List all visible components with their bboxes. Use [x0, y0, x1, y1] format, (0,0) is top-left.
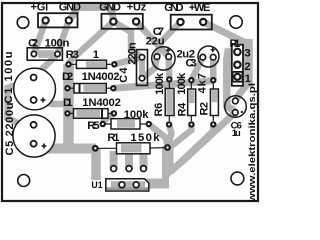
svg-text:GND: GND — [59, 1, 81, 13]
wire C7 minus to C4 bottom — [142, 57, 157, 79]
wire C1 bottom to rail — [34, 100, 68, 104]
wire B GND to R3 left — [69, 22, 114, 65]
resistor R6 — [165, 76, 174, 127]
svg-text:1: 1 — [93, 49, 99, 61]
diode D2 1N4002 — [64, 84, 116, 94]
resistor R4 — [188, 77, 196, 128]
wire C4 top to R3 right — [114, 57, 142, 64]
svg-text:C2: C2 — [28, 37, 38, 49]
connector block C — [171, 15, 212, 30]
wire C3 plus to R2 top — [210, 57, 217, 80]
svg-text:100n: 100n — [45, 37, 70, 49]
wire C3 minus to R4 top — [191, 57, 203, 80]
hole bottom-left — [18, 175, 30, 187]
svg-text:+Uz: +Uz — [127, 2, 147, 14]
wire U1 pin band 1 — [110, 151, 118, 169]
wire C6 bottom to U1 right — [170, 113, 235, 173]
svg-text:D1: D1 — [63, 97, 73, 109]
wire R6 bottom to R1 right — [168, 124, 172, 147]
svg-text:U1: U1 — [91, 180, 102, 190]
wire U1 pin band 2 — [125, 151, 133, 169]
resistor R2 — [210, 77, 218, 128]
svg-text:+Gl: +Gl — [31, 1, 49, 13]
wire B GND to C4 top — [113, 22, 142, 58]
resistor R1 — [92, 143, 171, 154]
capacitor C1 100u — [14, 68, 56, 110]
wire D2 right to R4 top — [113, 80, 213, 88]
connector block A — [38, 13, 78, 27]
capacitor C7 22u — [152, 47, 175, 70]
capacitor C4 220n — [137, 50, 148, 86]
connector P1 — [232, 45, 243, 86]
wire P1 pin2 stub — [226, 62, 237, 68]
IC U1 — [106, 166, 149, 191]
svg-text:100k: 100k — [124, 109, 149, 121]
wire +Uz to C7 plus — [136, 22, 169, 57]
wire P1 pins to C6 bottom — [227, 52, 238, 113]
svg-text:R3: R3 — [66, 49, 79, 61]
svg-text:GND: GND — [99, 2, 121, 14]
svg-text:4k7: 4k7 — [196, 73, 208, 93]
wire A GND to C2 right — [58, 20, 69, 54]
wire C1 top to C5 top via left edge — [8, 78, 34, 125]
svg-text:1N4002: 1N4002 — [82, 71, 120, 83]
wire C2 right to C1 top — [34, 54, 58, 78]
svg-text:C5 2200u: C5 2200u — [4, 103, 16, 156]
capacitor C5 2200u — [13, 115, 55, 157]
svg-text:P1: P1 — [230, 38, 241, 50]
wire GND top link A-B — [69, 8, 114, 22]
wire R1 right to U1 right — [162, 146, 174, 184]
hole top-right — [230, 16, 242, 28]
capacitor C6 1u — [225, 96, 247, 118]
svg-text:100k: 100k — [176, 72, 188, 95]
labels — [31, 1, 211, 14]
wire R1 left down to U1 — [91, 149, 101, 181]
wire R2 bottom diagonal to U1 — [178, 124, 213, 164]
svg-text:R4: R4 — [177, 102, 189, 117]
wire C5 plus band to R1 left — [34, 144, 96, 154]
resistor R5 — [100, 119, 152, 129]
connector block B — [102, 14, 143, 29]
hole top-left — [17, 17, 29, 29]
wire +WE to right edge down to P1 pin1 and C6 top — [203, 22, 244, 42]
wire R4 bottom to R1 right junction — [171, 124, 191, 146]
svg-text:R5: R5 — [87, 120, 99, 132]
svg-text:R6: R6 — [153, 103, 165, 117]
wire U1 pin band 3 — [140, 151, 148, 169]
capacitor C2 — [27, 48, 62, 60]
wire R5 right to R1 right junction — [149, 124, 168, 148]
svg-text:www.elektronika.qs.pl: www.elektronika.qs.pl — [247, 83, 257, 203]
svg-text:C3: C3 — [186, 58, 197, 70]
svg-text:R2: R2 — [199, 102, 211, 116]
svg-text:150k: 150k — [130, 132, 160, 144]
svg-text:R1: R1 — [107, 132, 119, 144]
svg-text:220n: 220n — [126, 42, 138, 65]
svg-text:2: 2 — [244, 61, 250, 73]
svg-text:1u: 1u — [232, 128, 241, 139]
diode D1 1N4002 — [64, 109, 117, 119]
svg-text:+WE: +WE — [189, 2, 210, 14]
wire +Gl to C2 left — [34, 20, 46, 54]
wire vertical rail R3-D2-D1 left — [63, 64, 74, 148]
wire C7 plus to R6 top — [165, 57, 172, 80]
svg-text:3: 3 — [244, 48, 250, 60]
hole bottom-right — [231, 172, 244, 185]
svg-text:1N4002: 1N4002 — [82, 97, 121, 109]
wire C GND to C7 minus — [157, 22, 181, 57]
resistor R3 — [65, 60, 117, 68]
svg-text:GND: GND — [164, 2, 183, 14]
wire D1 right to R5 left — [103, 113, 114, 124]
svg-text:100k: 100k — [154, 72, 166, 95]
svg-text:22u: 22u — [146, 35, 165, 47]
svg-text:D2: D2 — [62, 71, 73, 83]
board outline — [2, 3, 258, 201]
capacitor C3 2u2 — [198, 46, 219, 67]
